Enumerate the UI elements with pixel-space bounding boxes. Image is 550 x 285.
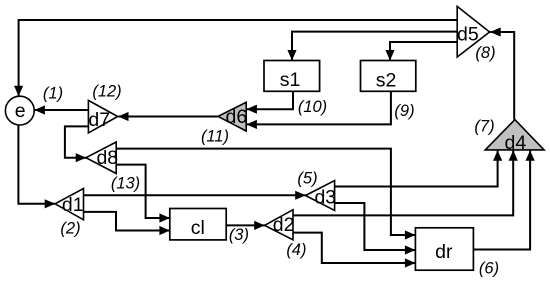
- svg-text:(10): (10): [298, 98, 327, 116]
- svg-text:(3): (3): [229, 226, 249, 244]
- svg-text:cl: cl: [191, 217, 205, 239]
- svg-text:(4): (4): [286, 241, 306, 259]
- svg-text:d1: d1: [62, 194, 84, 216]
- svg-text:(5): (5): [297, 170, 317, 188]
- svg-text:(6): (6): [479, 259, 499, 277]
- svg-text:d6: d6: [226, 106, 248, 128]
- svg-text:d3: d3: [314, 186, 336, 208]
- svg-text:(2): (2): [60, 219, 80, 237]
- svg-text:dr: dr: [435, 241, 453, 263]
- svg-text:e: e: [15, 100, 26, 122]
- svg-text:(12): (12): [92, 82, 121, 100]
- svg-text:d2: d2: [273, 214, 295, 236]
- svg-text:d4: d4: [505, 132, 527, 154]
- svg-text:(8): (8): [475, 44, 495, 62]
- svg-text:(9): (9): [394, 102, 414, 120]
- svg-text:d8: d8: [96, 147, 118, 169]
- svg-text:d5: d5: [457, 24, 479, 46]
- svg-text:(11): (11): [201, 127, 229, 145]
- svg-text:(13): (13): [111, 175, 140, 193]
- svg-text:(1): (1): [43, 84, 63, 102]
- svg-text:(7): (7): [474, 117, 494, 135]
- svg-text:d7: d7: [88, 109, 110, 131]
- svg-text:s2: s2: [376, 69, 397, 91]
- svg-text:s1: s1: [280, 69, 301, 91]
